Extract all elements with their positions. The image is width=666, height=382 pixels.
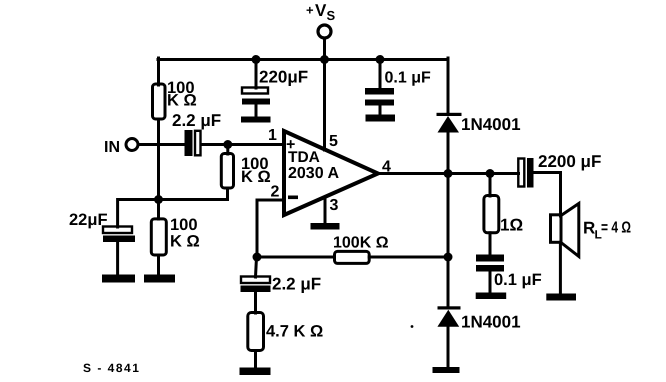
svg-text:5: 5 — [329, 133, 338, 150]
wire output pin 4 — [378, 172, 519, 175]
svg-text:2.2 μF: 2.2 μF — [272, 275, 321, 294]
junction feedback right — [444, 253, 453, 262]
wire top supply rail — [158, 58, 448, 61]
svg-text:V: V — [315, 1, 327, 20]
capacitor C1 2.2uF — [172, 111, 221, 156]
wire R3 bottom stem — [157, 255, 160, 275]
wire feedback left — [257, 256, 335, 259]
svg-text:0.1 μF: 0.1 μF — [385, 70, 431, 87]
junction at R2 top — [223, 140, 232, 149]
ground pin 3 — [311, 223, 340, 230]
junction on rail at 0.1uF — [376, 55, 385, 64]
junction on rail at +Vs — [320, 55, 329, 64]
wire left column middle — [157, 119, 160, 200]
node IN terminal — [104, 139, 138, 157]
wire speaker to ground — [559, 242, 562, 294]
junction bias node — [154, 195, 163, 204]
wire pin 3 — [324, 197, 327, 224]
ground below speaker — [546, 294, 576, 301]
ground below D2 — [433, 367, 460, 373]
junction output at 1 Ohm branch — [486, 169, 495, 178]
svg-text:4.7 K Ω: 4.7 K Ω — [266, 323, 323, 341]
resistor R3 100kOhm — [151, 216, 199, 255]
svg-text:1Ω: 1Ω — [500, 216, 523, 235]
wire feedback right — [369, 256, 448, 259]
ground below R3 — [144, 275, 175, 283]
junction feedback node — [253, 253, 262, 262]
diode D1 1N4001 — [437, 113, 521, 134]
wire diode D2 to ground — [447, 327, 450, 368]
wire R6 to C6 — [489, 233, 492, 255]
wire IN to C1 — [138, 143, 185, 146]
diode D2 1N4001 — [437, 306, 520, 331]
junction output at diode column — [444, 169, 453, 178]
resistor R1 100kOhm — [153, 79, 197, 119]
capacitor C2 22uF — [69, 211, 135, 275]
capacitor C7 2200uF — [518, 152, 601, 188]
svg-text:2.2 μF: 2.2 μF — [172, 111, 221, 130]
op-amp U1 TDA2030A — [284, 131, 378, 215]
svg-text:K Ω: K Ω — [167, 92, 197, 110]
svg-text:+: + — [306, 3, 314, 18]
resistor R2 100kOhm — [221, 154, 270, 189]
wire R5 bottom stem — [254, 351, 257, 370]
svg-text:3: 3 — [330, 197, 339, 214]
node +Vs terminal — [306, 1, 336, 38]
svg-text:220μF: 220μF — [259, 68, 308, 87]
svg-text:S - 4841: S - 4841 — [83, 361, 140, 375]
svg-text:K Ω: K Ω — [241, 168, 271, 186]
svg-text:K Ω: K Ω — [170, 233, 200, 251]
resistor R5 4.7kOhm — [248, 313, 323, 351]
ground below R5 — [240, 368, 271, 376]
wire right column upper — [447, 58, 450, 113]
capacitor C3 220uF — [242, 60, 308, 119]
svg-text:2030 A: 2030 A — [288, 165, 339, 182]
ink speck artifact — [411, 325, 414, 328]
wire pin 2 — [257, 200, 284, 257]
svg-text:1: 1 — [268, 127, 277, 144]
svg-text:= 4 Ω: = 4 Ω — [601, 220, 631, 237]
ground below C6 — [476, 293, 507, 300]
wire R2 bottom stem — [226, 188, 229, 200]
svg-text:S: S — [327, 8, 336, 23]
svg-text:R: R — [583, 219, 595, 238]
speaker RL 4 Ohm — [551, 204, 632, 257]
capacitor C4 0.1uF — [365, 60, 431, 115]
capacitor C6 0.1uF — [476, 255, 542, 293]
capacitor C5 2.2uF — [241, 257, 322, 313]
svg-text:2: 2 — [271, 184, 280, 201]
wire C7 to speaker — [534, 173, 561, 217]
ground below C4 — [366, 115, 396, 122]
svg-text:1N4001: 1N4001 — [461, 115, 521, 134]
svg-text:100: 100 — [170, 216, 198, 234]
wire pin 5 — [323, 60, 326, 151]
wire feedback node to diode D2 — [447, 257, 450, 306]
wire diode D1 to output — [447, 132, 450, 174]
wire 1 Ohm branch top — [489, 174, 492, 197]
svg-text:TDA: TDA — [288, 149, 320, 166]
resistor R4 100kOhm feedback — [333, 235, 389, 264]
svg-text:IN: IN — [104, 139, 120, 156]
wire +Vs stem — [323, 38, 326, 60]
resistor R6 1 Ohm — [484, 196, 523, 235]
svg-text:2200 μF: 2200 μF — [538, 152, 601, 171]
svg-text:22μF: 22μF — [69, 211, 108, 229]
wire R2 top stem — [226, 145, 229, 155]
junction on rail at 220uF — [252, 55, 261, 64]
svg-text:100K Ω: 100K Ω — [333, 235, 389, 252]
wire left column upper — [157, 58, 160, 85]
wire output to feedback node — [447, 174, 450, 258]
wire C1 to pin 1 — [201, 143, 284, 146]
svg-text:1N4001: 1N4001 — [461, 313, 521, 332]
svg-text:0.1 μF: 0.1 μF — [494, 271, 542, 289]
wire bias node horizontal — [118, 200, 228, 228]
ground below C3 — [241, 117, 271, 123]
wire R3 top stem — [157, 200, 160, 220]
ground below C2 — [102, 275, 135, 283]
